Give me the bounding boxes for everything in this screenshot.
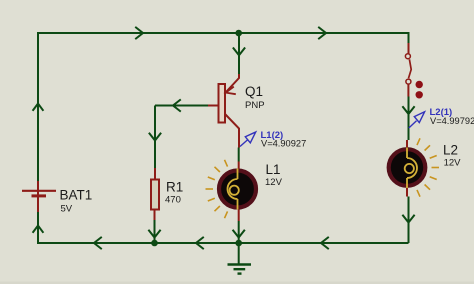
svg-text:R1: R1 (166, 180, 183, 195)
svg-text:Q1: Q1 (245, 84, 263, 99)
svg-text:470: 470 (165, 195, 181, 206)
svg-text:5V: 5V (61, 204, 73, 215)
svg-text:BAT1: BAT1 (60, 188, 93, 203)
svg-text:L2: L2 (443, 143, 458, 158)
svg-text:12V: 12V (265, 177, 283, 188)
svg-text:L1: L1 (266, 162, 281, 177)
svg-text:12V: 12V (444, 158, 462, 169)
svg-text:V=4.90927: V=4.90927 (261, 139, 306, 149)
svg-text:PNP: PNP (245, 100, 265, 111)
svg-text:V=4.99792: V=4.99792 (430, 116, 474, 126)
